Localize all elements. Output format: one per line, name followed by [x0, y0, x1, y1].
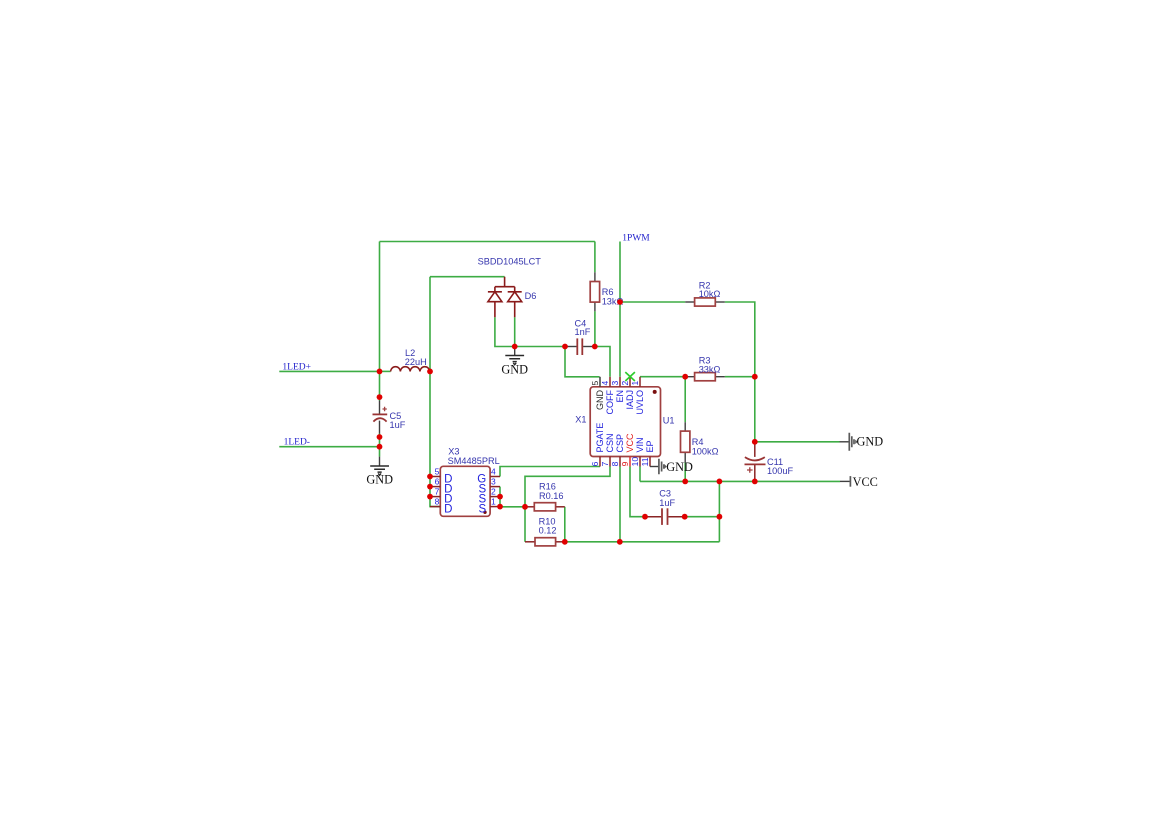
svg-text:SBDD1045LCT: SBDD1045LCT — [478, 257, 542, 267]
svg-text:EN: EN — [615, 390, 625, 403]
junction R4 bottom on VCC rail — [682, 479, 688, 485]
svg-text:22uH: 22uH — [405, 357, 427, 367]
wire C5 bottom stub to 1LED- junction — [379, 434, 381, 447]
U1 pin 1 UVLO (top) — [639, 377, 641, 387]
svg-text:1LED+: 1LED+ — [282, 362, 311, 372]
wire D6 cathode feed — [430, 276, 505, 278]
wire X3 source junction to R16/R10 junction — [500, 506, 525, 508]
ground GND under C5 — [370, 466, 389, 475]
wire anode junction to C4 left — [515, 346, 565, 348]
svg-text:PGATE: PGATE — [595, 423, 605, 453]
no-connect X on U1 pin 2 IADJ — [625, 372, 635, 381]
wire C4 right to X1 pin4 COFF — [595, 347, 610, 377]
svg-text:7: 7 — [600, 461, 610, 466]
svg-text:D6: D6 — [525, 291, 537, 301]
capacitor C3 — [645, 516, 661, 518]
wire R10 left drop — [524, 507, 526, 542]
svg-text:1uF: 1uF — [390, 420, 406, 430]
svg-text:R4: R4 — [692, 437, 704, 447]
capacitor C4 — [565, 346, 577, 348]
svg-text:100kΩ: 100kΩ — [692, 447, 719, 457]
svg-text:VCC: VCC — [625, 433, 635, 453]
svg-text:COFF: COFF — [605, 390, 615, 415]
capacitor C11 — [754, 442, 756, 457]
wire switch-node vertical to X3 drains — [430, 277, 440, 507]
svg-text:8: 8 — [610, 461, 620, 466]
svg-text:2: 2 — [620, 381, 630, 386]
junction C3 left node — [642, 514, 648, 520]
resistor R10 — [525, 541, 535, 543]
wire R6 top to top net — [594, 242, 596, 273]
MOSFET array X3 SM4485PRL body — [440, 466, 490, 516]
X3 pin 2 S (right) — [490, 496, 500, 498]
wire C5 top stub — [379, 371, 381, 400]
junction C3 right node — [682, 514, 688, 520]
svg-text:UVLO: UVLO — [635, 390, 645, 415]
junction X3 pin1 node — [497, 504, 503, 510]
wire 1LED+ lead-in — [279, 370, 379, 372]
svg-text:1: 1 — [491, 497, 496, 507]
wire GND flag wire — [755, 441, 840, 443]
svg-text:CSP: CSP — [615, 434, 625, 453]
U1 pin 11 EP (bottom) — [649, 457, 651, 467]
svg-text:IADJ: IADJ — [625, 390, 635, 410]
wire 1PWM vertical to X1 pin3 EN — [619, 242, 621, 377]
svg-text:33kΩ: 33kΩ — [699, 365, 721, 375]
wire VCC rail — [640, 480, 840, 482]
resistor R2 — [685, 301, 694, 303]
X3 pin 3 S (right) — [490, 486, 500, 488]
junction PWM/R2 junction — [617, 299, 623, 305]
wire D6 right anode down — [514, 317, 516, 346]
wire X1 pin9 VCC down to C3 left — [630, 467, 645, 517]
junction X3 pin2 node — [497, 494, 503, 500]
wire D6 left anode to anode junction — [495, 317, 515, 346]
junction R3 right node — [752, 374, 758, 380]
svg-text:EP: EP — [645, 440, 655, 452]
svg-text:3: 3 — [610, 381, 620, 386]
svg-text:11: 11 — [640, 457, 650, 466]
wire L2 right to switch-node vertical — [429, 370, 431, 372]
wire 1LED+ junction to L2 left — [380, 370, 391, 372]
U1 pin 7 CSN (bottom) — [609, 457, 611, 467]
wire 1LED- lead-in — [279, 446, 379, 448]
wire X3 sources tie — [499, 487, 501, 507]
junction 1LED- node — [377, 444, 383, 450]
junction L2 right / switch node — [427, 369, 433, 375]
X3 pin 6 D (left) — [430, 486, 440, 488]
wire X1 pin10 VIN down to VCC rail — [639, 467, 641, 482]
svg-text:1uF: 1uF — [659, 498, 675, 508]
svg-text:6: 6 — [590, 461, 600, 466]
svg-text:1LED-: 1LED- — [284, 438, 310, 448]
svg-text:4: 4 — [491, 467, 496, 477]
svg-text:U1: U1 — [663, 416, 675, 426]
junction 1LED+ node — [377, 369, 383, 375]
wire right vertical down to GND-flag junction — [754, 377, 756, 442]
svg-text:1PWM: 1PWM — [622, 233, 650, 243]
svg-text:6: 6 — [435, 477, 440, 487]
U1 pin-1 marker dot — [653, 390, 657, 394]
svg-text:9: 9 — [620, 461, 630, 466]
wire X3 gate to X1 pin6 PGATE — [500, 467, 600, 477]
junction mid vertical on VCC rail — [717, 479, 723, 485]
svg-text:100uF: 100uF — [767, 466, 793, 476]
wire top net: switch node to R6 top — [380, 241, 595, 243]
U1 pin 9 VCC (bottom) — [629, 457, 631, 467]
svg-text:VIN: VIN — [635, 437, 645, 452]
wire R4 top feed — [684, 377, 686, 423]
X3 pin-1 marker dot — [483, 511, 486, 514]
U1 pin 3 EN (top) — [619, 377, 621, 387]
X3 pin 4 G (right) — [490, 476, 500, 478]
junction sense junction R16/R10 left — [522, 504, 528, 510]
svg-text:GND: GND — [857, 435, 884, 449]
capacitor C5 — [379, 401, 381, 414]
junction C11 bottom on VCC rail — [752, 479, 758, 485]
resistor R3 — [685, 376, 694, 378]
svg-text:4: 4 — [600, 381, 610, 386]
U1 pin 8 CSP (bottom) — [619, 457, 621, 467]
U1 pin 2 IADJ (top) — [629, 377, 631, 387]
junction C3 right rail node — [717, 514, 723, 520]
ground stub under C5 — [379, 457, 381, 466]
op-amp/controller IC U1 (X1) body — [590, 387, 660, 457]
svg-text:S: S — [479, 503, 487, 515]
junction D6 anode junction — [512, 344, 518, 350]
svg-text:R6: R6 — [602, 287, 614, 297]
junction C5 top node — [377, 394, 383, 400]
svg-text:X1: X1 — [575, 414, 586, 424]
wire vertical from top net down to 1LED+ junction — [379, 242, 381, 372]
wire C3 right to mid vertical — [685, 516, 720, 518]
junction GND rail / C11 top node — [752, 439, 758, 445]
X3 pin 8 D (left) — [430, 506, 440, 508]
wire bottom sense rail — [565, 541, 720, 543]
junction X3 pin7 node — [427, 494, 433, 500]
wire R3 right junction — [725, 376, 755, 378]
X3 pin 1 S (right) — [490, 506, 500, 508]
wire R4 bottom to VCC rail — [684, 462, 686, 481]
wire PWM junction to R2 left — [620, 301, 685, 303]
resistor R16 — [525, 506, 534, 508]
junction C4 left node — [562, 344, 568, 350]
U1 pin 5 GND (top) — [599, 377, 601, 387]
junction C4 right node — [592, 344, 598, 350]
junction CSP on bottom rail — [617, 539, 623, 545]
svg-text:3: 3 — [491, 477, 496, 487]
svg-text:5: 5 — [435, 467, 440, 477]
power flag VCC (right) — [840, 480, 850, 482]
junction R10 right junction — [562, 539, 568, 545]
wire mid vertical VCC to bottom rail — [718, 481, 720, 541]
svg-text:GND: GND — [501, 362, 528, 376]
svg-text:2: 2 — [491, 487, 496, 497]
svg-text:5: 5 — [590, 381, 600, 386]
svg-text:8: 8 — [435, 497, 440, 507]
junction X3 pin6 node — [427, 484, 433, 490]
wire R2 right to right vertical — [725, 302, 755, 377]
svg-text:R0.16: R0.16 — [539, 491, 564, 501]
svg-text:10: 10 — [630, 457, 640, 467]
ground arrow at U1 pin 11 EP — [650, 466, 659, 468]
ground GND under D6 — [505, 356, 524, 365]
wire C4 right to R6 bottom — [594, 311, 596, 346]
wire X1 pin8 CSP down to bottom rail — [619, 467, 621, 542]
svg-text:GND: GND — [595, 390, 605, 411]
svg-text:GND: GND — [366, 473, 393, 487]
svg-text:0.12: 0.12 — [539, 526, 557, 536]
wire C11 bottom is on VCC rail — [754, 479, 756, 481]
X3 pin 7 D (left) — [430, 496, 440, 498]
svg-text:7: 7 — [435, 487, 440, 497]
resistor R4 — [684, 422, 686, 431]
dual diode D6 SBDD1045LCT — [495, 277, 515, 292]
U1 pin 10 VIN (bottom) — [639, 457, 641, 467]
svg-text:VCC: VCC — [853, 475, 878, 489]
svg-text:10kΩ: 10kΩ — [699, 289, 721, 299]
svg-text:CSN: CSN — [605, 433, 615, 452]
junction X3 pin5 node — [427, 474, 433, 480]
power flag GND (right) — [840, 441, 850, 443]
wire R16 right drop — [564, 507, 566, 542]
U1 pin 4 COFF (top) — [609, 377, 611, 387]
svg-text:GND: GND — [666, 460, 693, 474]
svg-text:SM4485PRL: SM4485PRL — [448, 456, 500, 466]
junction R3 left / R4 top node — [682, 374, 688, 380]
resistor R6 — [594, 272, 596, 281]
wire X1 pin7 CSN to sense junction — [525, 467, 610, 507]
U1 pin 6 PGATE (bottom) — [599, 457, 601, 467]
wire X1 pin1 UVLO to R3 left — [640, 376, 685, 378]
X3 pin 5 D (left) — [430, 476, 440, 478]
svg-text:D: D — [444, 503, 452, 515]
svg-text:1: 1 — [630, 381, 640, 386]
junction C5 bottom node — [377, 434, 383, 440]
inductor L2 — [391, 367, 430, 372]
svg-text:1nF: 1nF — [575, 327, 591, 337]
wire 1LED- junction down to GND — [379, 447, 381, 457]
ground stub under D6 — [514, 347, 516, 356]
wire C4 left down to X1 pin5 GND — [565, 347, 600, 377]
